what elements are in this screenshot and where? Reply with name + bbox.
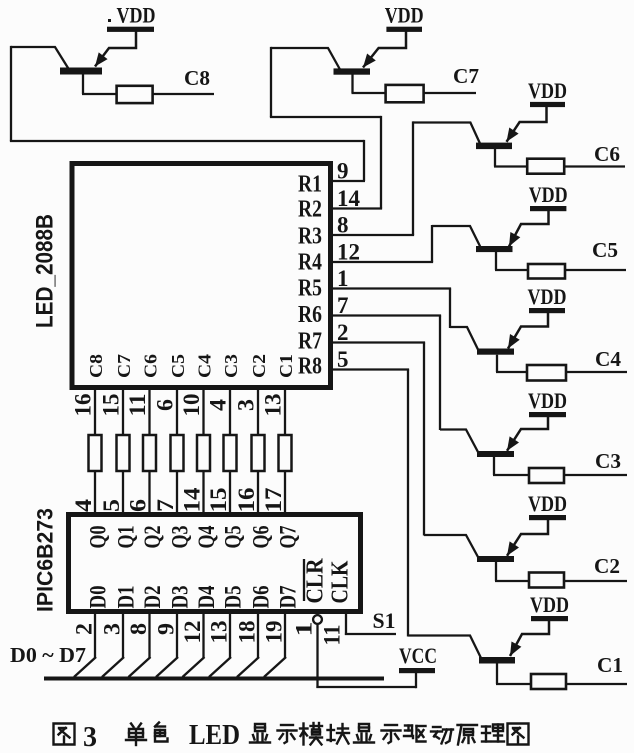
svg-text:12: 12 (337, 240, 360, 265)
power VDD rail bar for Q2 (529, 515, 566, 520)
wire U1 pin 13 down to resistor (284, 388, 286, 435)
wire U2 pin 3 down to data bus (122, 611, 124, 658)
wire bus entry diagonal for D0 (74, 657, 96, 677)
svg-text:Q2: Q2 (140, 526, 165, 549)
wire Q8 collector down (82, 74, 84, 94)
wire Q4 base lead (450, 327, 478, 350)
wire net R7: vertical run (423, 343, 425, 536)
svg-text:C2: C2 (594, 554, 620, 578)
svg-text:4: 4 (206, 398, 231, 411)
caption hanzi LI (482, 725, 504, 742)
svg-text:C4: C4 (195, 354, 215, 378)
power VCC rail bar (399, 668, 435, 673)
svg-text:IPIC6B273: IPIC6B273 (33, 508, 58, 612)
transistor Q4 emitter lead (508, 312, 548, 349)
wire resistor down to U2 pin (176, 471, 178, 514)
svg-text:R8: R8 (298, 354, 322, 380)
power VDD rail bar for Q8 (107, 27, 154, 32)
wire net R6: vertical run (439, 316, 441, 431)
wire Q2 collector to resistor (495, 580, 530, 582)
wire Q4 collector to resistor (496, 371, 528, 373)
svg-text:8: 8 (337, 213, 349, 238)
resistor for column C4 (vertical) (197, 435, 210, 471)
transistor Q4 emitter arrow (PNP, points into base bar) (508, 334, 520, 349)
svg-text:7: 7 (337, 293, 349, 318)
svg-text:C2: C2 (249, 354, 269, 378)
svg-text:C3: C3 (221, 354, 241, 378)
wire Q7 base lead from node R2 net (271, 48, 340, 70)
wire pin 5 stub from U1 to net R8 (332, 368, 409, 370)
wire Q4 collector down (496, 355, 498, 372)
resistor R-C6 (527, 159, 564, 174)
transistor Q1 base bar (479, 657, 515, 664)
svg-text:CLK: CLK (328, 560, 354, 603)
svg-text:VDD: VDD (530, 592, 569, 617)
svg-text:D0: D0 (86, 586, 111, 609)
svg-text:S1: S1 (373, 608, 396, 633)
svg-text:D6: D6 (249, 586, 274, 609)
svg-text:R2: R2 (298, 197, 322, 223)
wire net R8: vertical run (407, 370, 409, 637)
power VDD rail bar for Q1 (531, 616, 568, 621)
wire net R2: horizontal run (270, 116, 381, 118)
svg-text:VCC: VCC (399, 643, 437, 668)
wire Q1 collector to resistor (496, 683, 532, 685)
wire Q3 collector to resistor (493, 474, 530, 476)
caption hanzi DAN (126, 724, 146, 746)
wire net R1: left vertical run (10, 46, 12, 141)
svg-text:C8: C8 (86, 354, 106, 378)
wire resistor to node C2 (564, 580, 627, 582)
wire net R4: vertical run (431, 225, 433, 262)
svg-text:2: 2 (337, 320, 349, 345)
wire U2 pin 8 down to data bus (148, 611, 150, 658)
svg-text:R1: R1 (298, 172, 322, 198)
transistor Q6 base bar (476, 143, 512, 150)
svg-text:Q6: Q6 (249, 526, 274, 549)
svg-text:VDD: VDD (528, 491, 567, 516)
caption hanzi DONG (431, 727, 453, 744)
resistor R-C5 (528, 264, 565, 279)
svg-text:CLR: CLR (303, 558, 329, 604)
svg-text:7: 7 (153, 499, 178, 512)
wire U2 pin 12 down to data bus (202, 611, 204, 658)
wire U1 pin 11 down to resistor (148, 388, 150, 435)
transistor Q2 base bar (477, 556, 514, 562)
svg-text:16: 16 (71, 394, 96, 417)
svg-text:3: 3 (100, 623, 125, 635)
transistor Q8 base bar (60, 68, 102, 75)
svg-text:C6: C6 (594, 142, 620, 166)
svg-text:R7: R7 (298, 329, 322, 355)
transistor Q4 base bar (477, 349, 514, 355)
svg-text:14: 14 (180, 487, 205, 513)
caption hanzi TU (figure) (54, 724, 75, 745)
resistor for column C1 (vertical) (279, 435, 292, 471)
svg-text:3: 3 (83, 722, 97, 753)
svg-text:13: 13 (261, 394, 286, 417)
resistor R-C2 (529, 573, 564, 588)
svg-text:10: 10 (179, 394, 204, 417)
power VDD rail bar for Q3 (529, 412, 566, 417)
svg-text:5: 5 (337, 347, 349, 372)
caption hanzi XIAN (250, 724, 270, 743)
wire net R2: vertical run (270, 47, 272, 117)
inverting bubble on CLR pin (313, 615, 322, 624)
resistor for column C5 (vertical) (171, 435, 184, 471)
wire resistor to node C4 (566, 371, 627, 373)
wire pin 7 stub from U1 to net R6 (332, 314, 441, 316)
resistor for column C2 (vertical) (252, 435, 265, 471)
resistor for column C3 (vertical) (224, 435, 237, 471)
U2 pin 1 stub (CLR) (316, 611, 318, 616)
resistor R-C7 (386, 85, 424, 102)
svg-text:2: 2 (72, 623, 97, 635)
wire Q7 collector down (351, 75, 353, 94)
svg-text:6: 6 (153, 399, 178, 411)
transistor Q7 base bar (334, 68, 371, 74)
wire Q8 collector to resistor (82, 93, 118, 95)
caption hanzi SE (155, 723, 168, 742)
transistor Q3 emitter lead (507, 416, 548, 451)
ink dot artifact left of VDD label (108, 19, 111, 22)
transistor Q7 emitter lead (363, 31, 406, 68)
svg-text:11: 11 (125, 394, 150, 417)
power VDD rail bar for Q5 (530, 206, 566, 211)
wire pin 1 stub from U1 to net R5 (332, 287, 451, 289)
svg-text:1: 1 (292, 622, 317, 637)
wire Q8 base lead from node R1 net (11, 47, 69, 70)
svg-text:D0 ~ D7: D0 ~ D7 (10, 643, 86, 667)
wire Q3 base lead (440, 430, 478, 453)
wire Q2 collector down (495, 562, 497, 581)
wire CLK to switch S1 (345, 633, 396, 635)
resistor for column C6 (vertical) (143, 435, 156, 471)
svg-text:Q7: Q7 (276, 526, 301, 549)
svg-text:R4: R4 (298, 250, 322, 276)
power VDD rail bar for Q4 (529, 308, 565, 313)
svg-text:C5: C5 (592, 238, 618, 262)
svg-text:9: 9 (337, 159, 349, 184)
wire pin 9 stub from U1 (332, 180, 365, 182)
IC U2 IPIC6B273 package outline (69, 515, 361, 612)
wire CLR pull-up: vertical down (316, 624, 318, 689)
caption hanzi KUAI (328, 724, 350, 744)
svg-text:17: 17 (261, 488, 286, 513)
wire VCC rail drop (415, 671, 417, 688)
svg-text:9: 9 (154, 623, 179, 635)
svg-text:C7: C7 (453, 64, 479, 88)
svg-text:Q4: Q4 (194, 525, 219, 548)
wire pin 14 stub from U1 (332, 207, 382, 209)
svg-text:C8: C8 (184, 66, 210, 90)
svg-text:C1: C1 (276, 354, 296, 378)
wire bus entry diagonal for D4 (183, 657, 205, 677)
wire Q1 base lead from net R8 / switch node (408, 636, 481, 659)
svg-text:D1: D1 (114, 586, 139, 609)
bus line D0~D7 (thick) (44, 677, 384, 681)
transistor Q3 base bar (477, 451, 514, 457)
svg-text:Q0: Q0 (86, 526, 111, 549)
wire pin 12 stub from U1 to net R4 (332, 261, 433, 263)
wire resistor to node C6 (564, 165, 625, 167)
wire bus entry diagonal for D7 (264, 657, 286, 677)
wire U2 pin 9 down to data bus (176, 611, 178, 658)
wire resistor to node C8 (153, 93, 214, 95)
svg-text:4: 4 (71, 498, 96, 512)
wire resistor down to U2 pin (257, 471, 259, 514)
svg-text:D7: D7 (276, 586, 301, 609)
wire resistor to node C7 (424, 92, 476, 94)
svg-text:Q5: Q5 (221, 526, 246, 549)
svg-text:D4: D4 (194, 585, 219, 608)
svg-text:C5: C5 (168, 354, 188, 378)
caption hanzi MO (300, 723, 322, 745)
resistor for column C7 (vertical) (117, 435, 130, 471)
transistor Q7 emitter arrow (PNP, points into base bar) (363, 54, 376, 68)
wire resistor to node C5 (565, 269, 626, 271)
svg-text:LED: LED (189, 720, 240, 751)
svg-text:D3: D3 (168, 586, 193, 609)
wire net R3: vertical run (412, 121, 414, 235)
power VDD rail bar for Q7 (386, 27, 422, 32)
wire Q3 collector down (493, 457, 495, 475)
wire Q5 collector to resistor (495, 269, 529, 271)
svg-text:VDD: VDD (529, 182, 568, 207)
transistor Q5 emitter arrow (PNP, points into base bar) (509, 232, 520, 247)
transistor Q8 emitter arrow (PNP, points into base bar) (95, 52, 108, 66)
transistor Q8 emitter lead (95, 31, 136, 67)
svg-text:R3: R3 (298, 224, 322, 250)
wire U1 pin 6 down to resistor (176, 388, 178, 435)
svg-text:6: 6 (126, 499, 151, 512)
wire net R1: long horizontal run (10, 140, 364, 142)
power VDD rail bar for Q6 (530, 102, 565, 107)
caption hanzi SHI (278, 725, 297, 743)
wire net R1: vertical drop to pin 9 (363, 140, 365, 181)
svg-text:14: 14 (337, 186, 361, 211)
svg-text:19: 19 (262, 621, 287, 644)
svg-text:3: 3 (234, 399, 259, 411)
wire bus entry diagonal for D2 (129, 657, 151, 677)
transistor Q5 emitter lead (509, 210, 549, 247)
wire bus entry diagonal for D3 (156, 657, 178, 677)
IC U1 LED_2088B package outline (72, 164, 331, 388)
svg-text:11: 11 (320, 625, 345, 646)
wire pin 2 stub from U1 to net R7 (332, 341, 425, 343)
svg-text:12: 12 (180, 621, 205, 644)
svg-text:C6: C6 (141, 354, 161, 378)
wire U1 pin 16 down to resistor (94, 388, 96, 435)
transistor Q1 emitter lead (510, 620, 549, 656)
svg-text:15: 15 (206, 488, 231, 513)
svg-text:VDD: VDD (528, 284, 567, 309)
svg-text:VDD: VDD (528, 388, 567, 413)
transistor Q1 emitter arrow (PNP, points into base bar) (510, 642, 521, 657)
svg-text:1: 1 (337, 266, 349, 291)
wire resistor to node C3 (564, 474, 627, 476)
wire Q6 base lead (413, 123, 480, 144)
wire Q2 base lead (424, 535, 478, 557)
svg-text:LED_2088B: LED_2088B (32, 214, 59, 328)
wire CLR pull-up: horizontal to VCC (316, 686, 416, 688)
caption hanzi XIAN (354, 724, 374, 743)
svg-text:R5: R5 (298, 276, 322, 302)
wire U2 pin 13 down to data bus (229, 611, 231, 658)
wire Q5 base lead (432, 226, 480, 247)
transistor Q2 emitter arrow (PNP, points into base bar) (507, 541, 519, 555)
caption hanzi SHI (382, 725, 401, 743)
transistor Q6 emitter arrow (PNP, points into base bar) (507, 128, 519, 142)
svg-text:5: 5 (99, 499, 124, 512)
svg-text:C7: C7 (114, 354, 134, 378)
wire net R2: vertical drop to pin 14 (380, 116, 382, 209)
transistor Q2 emitter lead (507, 519, 548, 556)
svg-text:D5: D5 (221, 586, 246, 609)
wire U2 pin 2 down to data bus (94, 611, 96, 658)
wire Q1 collector down (496, 664, 498, 685)
svg-text:VDD: VDD (385, 3, 424, 28)
wire U2 pin 19 down to data bus (284, 611, 286, 658)
svg-text:R6: R6 (298, 302, 322, 328)
wire pin 8 stub from U1 to net R3 (332, 234, 414, 236)
caption hanzi TU (figure) (508, 724, 529, 745)
resistor R-C8 (column resistor) (117, 86, 153, 103)
wire Q6 collector down (494, 149, 496, 167)
transistor Q6 emitter lead (507, 106, 547, 142)
svg-text:VDD: VDD (117, 3, 156, 28)
svg-text:8: 8 (126, 623, 151, 635)
wire resistor down to U2 pin (148, 471, 150, 514)
caption hanzi QU (404, 726, 426, 742)
wire bus entry diagonal for D1 (102, 657, 124, 677)
svg-text:C4: C4 (595, 347, 621, 371)
wire resistor down to U2 pin (284, 471, 286, 514)
svg-text:C1: C1 (597, 653, 623, 677)
wire resistor down to U2 pin (229, 471, 231, 514)
svg-text:16: 16 (234, 488, 259, 513)
U2 pin 11 stub (CLK) down (345, 611, 347, 635)
transistor Q3 emitter arrow (PNP, points into base bar) (507, 436, 519, 450)
svg-text:Q3: Q3 (168, 526, 193, 549)
resistor R-C4 (527, 365, 566, 381)
wire bus entry diagonal for D6 (237, 657, 259, 677)
svg-text:15: 15 (99, 394, 124, 417)
svg-text:18: 18 (235, 621, 260, 644)
wire resistor down to U2 pin (202, 471, 204, 514)
wire Q5 collector down (495, 252, 497, 270)
caption hanzi YUAN (458, 725, 478, 745)
svg-text:C3: C3 (595, 449, 621, 473)
resistor for column C8 (vertical) (89, 435, 102, 471)
svg-text:13: 13 (207, 621, 232, 644)
wire resistor down to U2 pin (122, 471, 124, 514)
wire resistor down to U2 pin (94, 471, 96, 514)
svg-text:Q1: Q1 (114, 526, 139, 549)
resistor R-C1 (531, 674, 566, 689)
svg-text:D2: D2 (140, 586, 165, 609)
wire U1 pin 10 down to resistor (202, 388, 204, 435)
wire U1 pin 15 down to resistor (122, 388, 124, 435)
svg-text:VDD: VDD (528, 78, 567, 103)
wire U1 pin 3 down to resistor (257, 388, 259, 435)
U2 CLR overline bar (303, 559, 305, 601)
wire U2 pin 18 down to data bus (257, 611, 259, 658)
wire Q7 collector to resistor (352, 92, 387, 94)
wire U1 pin 4 down to resistor (229, 388, 231, 435)
wire resistor to node C1 (566, 683, 627, 685)
wire bus entry diagonal for D5 (209, 657, 231, 677)
transistor Q5 base bar (476, 246, 513, 252)
wire Q6 collector to resistor (494, 165, 528, 167)
wire net R5: vertical run (449, 289, 451, 329)
resistor R-C3 (529, 468, 564, 483)
